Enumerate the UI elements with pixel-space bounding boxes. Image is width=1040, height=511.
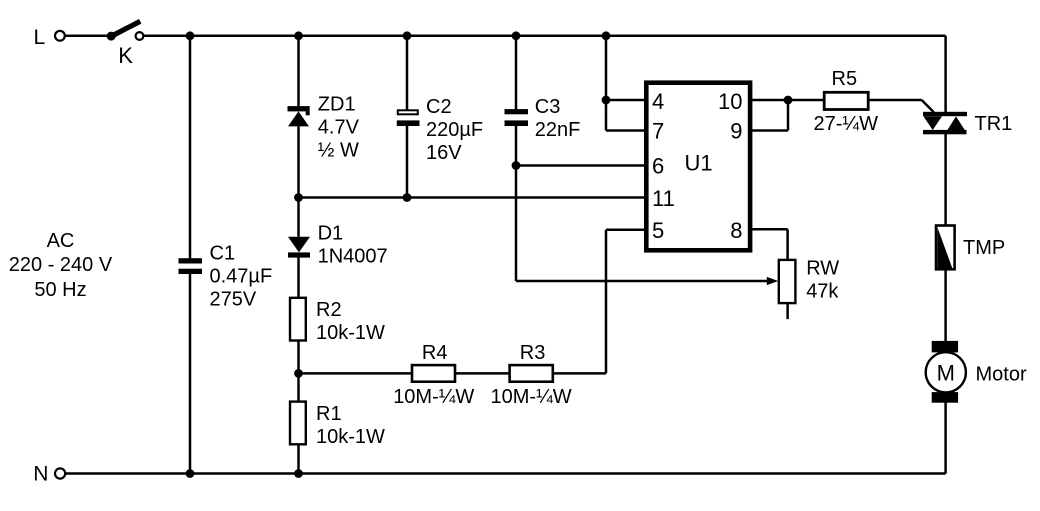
resistor R3	[510, 365, 553, 382]
potentiometer RW body	[779, 260, 796, 303]
svg-text:1N4007: 1N4007	[318, 246, 388, 268]
wire R2/R1 junction to R4	[299, 372, 413, 375]
wire C2 column top	[406, 36, 409, 110]
svg-text:10k-1W: 10k-1W	[316, 322, 385, 344]
svg-text:6: 6	[652, 153, 664, 178]
svg-text:ZD1: ZD1	[318, 94, 356, 116]
wire ZD1 anode to D1	[297, 126, 300, 237]
wire C3 column top	[515, 36, 518, 110]
node: top bus junction x298	[294, 31, 303, 40]
svg-text:220 - 240 V: 220 - 240 V	[9, 254, 113, 276]
svg-text:8: 8	[730, 218, 742, 243]
svg-text:N: N	[33, 463, 48, 486]
node: C3/pin6 junction	[512, 161, 521, 170]
svg-text:Motor: Motor	[976, 363, 1027, 385]
svg-text:5: 5	[652, 218, 664, 243]
node: bottom bus junction x190	[186, 469, 195, 478]
svg-text:27-¼W: 27-¼W	[814, 113, 879, 135]
switch K lever	[111, 21, 140, 36]
wire C1 column top	[189, 36, 192, 259]
svg-text:C3: C3	[535, 96, 561, 118]
svg-text:R1: R1	[316, 403, 342, 425]
svg-text:U1: U1	[685, 150, 713, 175]
wire pin 9 riser	[787, 100, 790, 131]
wire top bus L to switch	[65, 35, 107, 38]
svg-text:50 Hz: 50 Hz	[34, 279, 86, 301]
svg-text:275V: 275V	[210, 288, 257, 310]
svg-text:220µF: 220µF	[426, 119, 483, 141]
svg-text:½ W: ½ W	[318, 140, 359, 162]
capacitor C1	[179, 258, 203, 274]
wire pin 10	[752, 99, 824, 102]
wire R4 to R3	[455, 372, 510, 375]
wire R1 to bottom bus	[297, 444, 300, 473]
svg-text:R2: R2	[316, 299, 342, 321]
svg-text:9: 9	[730, 118, 742, 143]
capacitor C2 (electrolytic)	[397, 110, 420, 126]
svg-text:4.7V: 4.7V	[318, 117, 360, 139]
wire pin 9	[752, 129, 788, 132]
wire D1 to R2	[297, 257, 300, 297]
capacitor C3	[505, 109, 529, 126]
svg-text:L: L	[34, 26, 46, 49]
wire TR1 to TMP	[944, 134, 947, 226]
wire R2 to R1	[297, 341, 300, 402]
wire TMP to motor	[944, 269, 947, 341]
node: top bus junction x190	[186, 31, 195, 40]
wire RW bottom stub	[786, 303, 789, 319]
svg-text:7: 7	[652, 118, 664, 143]
wire pin 5	[606, 229, 648, 232]
wire pin 5 riser down	[605, 230, 608, 374]
thermal cutout TMP	[936, 226, 955, 270]
triac TR1	[923, 112, 967, 134]
wire RW wiper horizontal	[516, 280, 768, 283]
svg-text:C1: C1	[210, 242, 236, 264]
wire gate diagonal	[922, 100, 934, 112]
switch K contact circle	[136, 32, 144, 40]
wire pin 8	[752, 228, 788, 231]
wire pins 4-7 riser	[605, 36, 608, 131]
svg-text:D1: D1	[318, 223, 344, 245]
wire motor to bottom bus	[944, 402, 947, 473]
svg-text:10M-¼W: 10M-¼W	[393, 386, 474, 408]
svg-text:TR1: TR1	[975, 113, 1013, 135]
svg-text:10k-1W: 10k-1W	[316, 426, 385, 448]
node: R2/R1 junction	[294, 369, 303, 378]
wire pin 8 down to RW	[786, 229, 789, 260]
svg-text:4: 4	[652, 89, 664, 114]
svg-text:R4: R4	[422, 342, 448, 364]
node: top bus junction x606	[602, 31, 611, 40]
resistor R5	[824, 92, 868, 109]
resistor R2	[290, 298, 306, 341]
node: top bus junction x516	[512, 31, 521, 40]
diode D1	[288, 237, 310, 258]
terminal L	[55, 31, 65, 41]
svg-text:K: K	[118, 43, 133, 68]
svg-text:22nF: 22nF	[535, 119, 581, 141]
svg-text:AC: AC	[47, 230, 75, 252]
resistor R1	[290, 402, 306, 445]
wire pin 6	[516, 164, 648, 167]
wire ZD1 column top	[297, 36, 300, 106]
svg-text:10M-¼W: 10M-¼W	[491, 386, 572, 408]
svg-text:0.47µF: 0.47µF	[210, 265, 273, 287]
svg-text:R3: R3	[520, 342, 546, 364]
node: C2 bus junction	[403, 193, 412, 202]
op-amp U1 (IC box)	[646, 83, 750, 251]
wire R5 to gate corner	[868, 99, 922, 102]
wire right column to TR1	[944, 36, 947, 112]
motor M body	[926, 352, 966, 392]
motor M top brush	[932, 341, 958, 353]
node: pin4 riser junction	[602, 96, 611, 105]
motor M bottom brush	[932, 392, 958, 403]
node: top bus junction x407	[403, 31, 412, 40]
svg-text:R5: R5	[832, 68, 858, 90]
wire pin 7	[606, 129, 648, 132]
resistor R4	[412, 365, 455, 382]
svg-text:47k: 47k	[806, 281, 839, 303]
switch K pivot	[107, 32, 116, 41]
svg-text:16V: 16V	[426, 142, 462, 164]
node: ZD1 anode bus junction	[294, 193, 303, 202]
wire R3 to pin5 riser	[553, 372, 606, 375]
wire C3 bottom down to wiper line	[515, 126, 518, 281]
svg-text:C2: C2	[426, 96, 452, 118]
svg-text:RW: RW	[806, 258, 839, 280]
wire C1 column bottom	[189, 274, 192, 474]
svg-text:10: 10	[718, 89, 742, 114]
zener diode ZD1	[288, 106, 310, 126]
wire C2 bottom to bus	[406, 126, 409, 198]
wire bottom bus	[66, 472, 946, 475]
svg-text:11: 11	[652, 186, 675, 211]
wire pin 11 bus	[299, 196, 649, 199]
node: pin10/R5 junction	[784, 96, 793, 105]
svg-text:TMP: TMP	[963, 237, 1005, 259]
svg-text:M: M	[937, 360, 955, 385]
node: bottom bus junction x298	[294, 469, 303, 478]
wire top bus after switch	[143, 35, 945, 38]
potentiometer RW wiper arrowhead	[767, 277, 778, 285]
terminal N	[55, 468, 65, 478]
wire pin 4	[606, 99, 648, 102]
